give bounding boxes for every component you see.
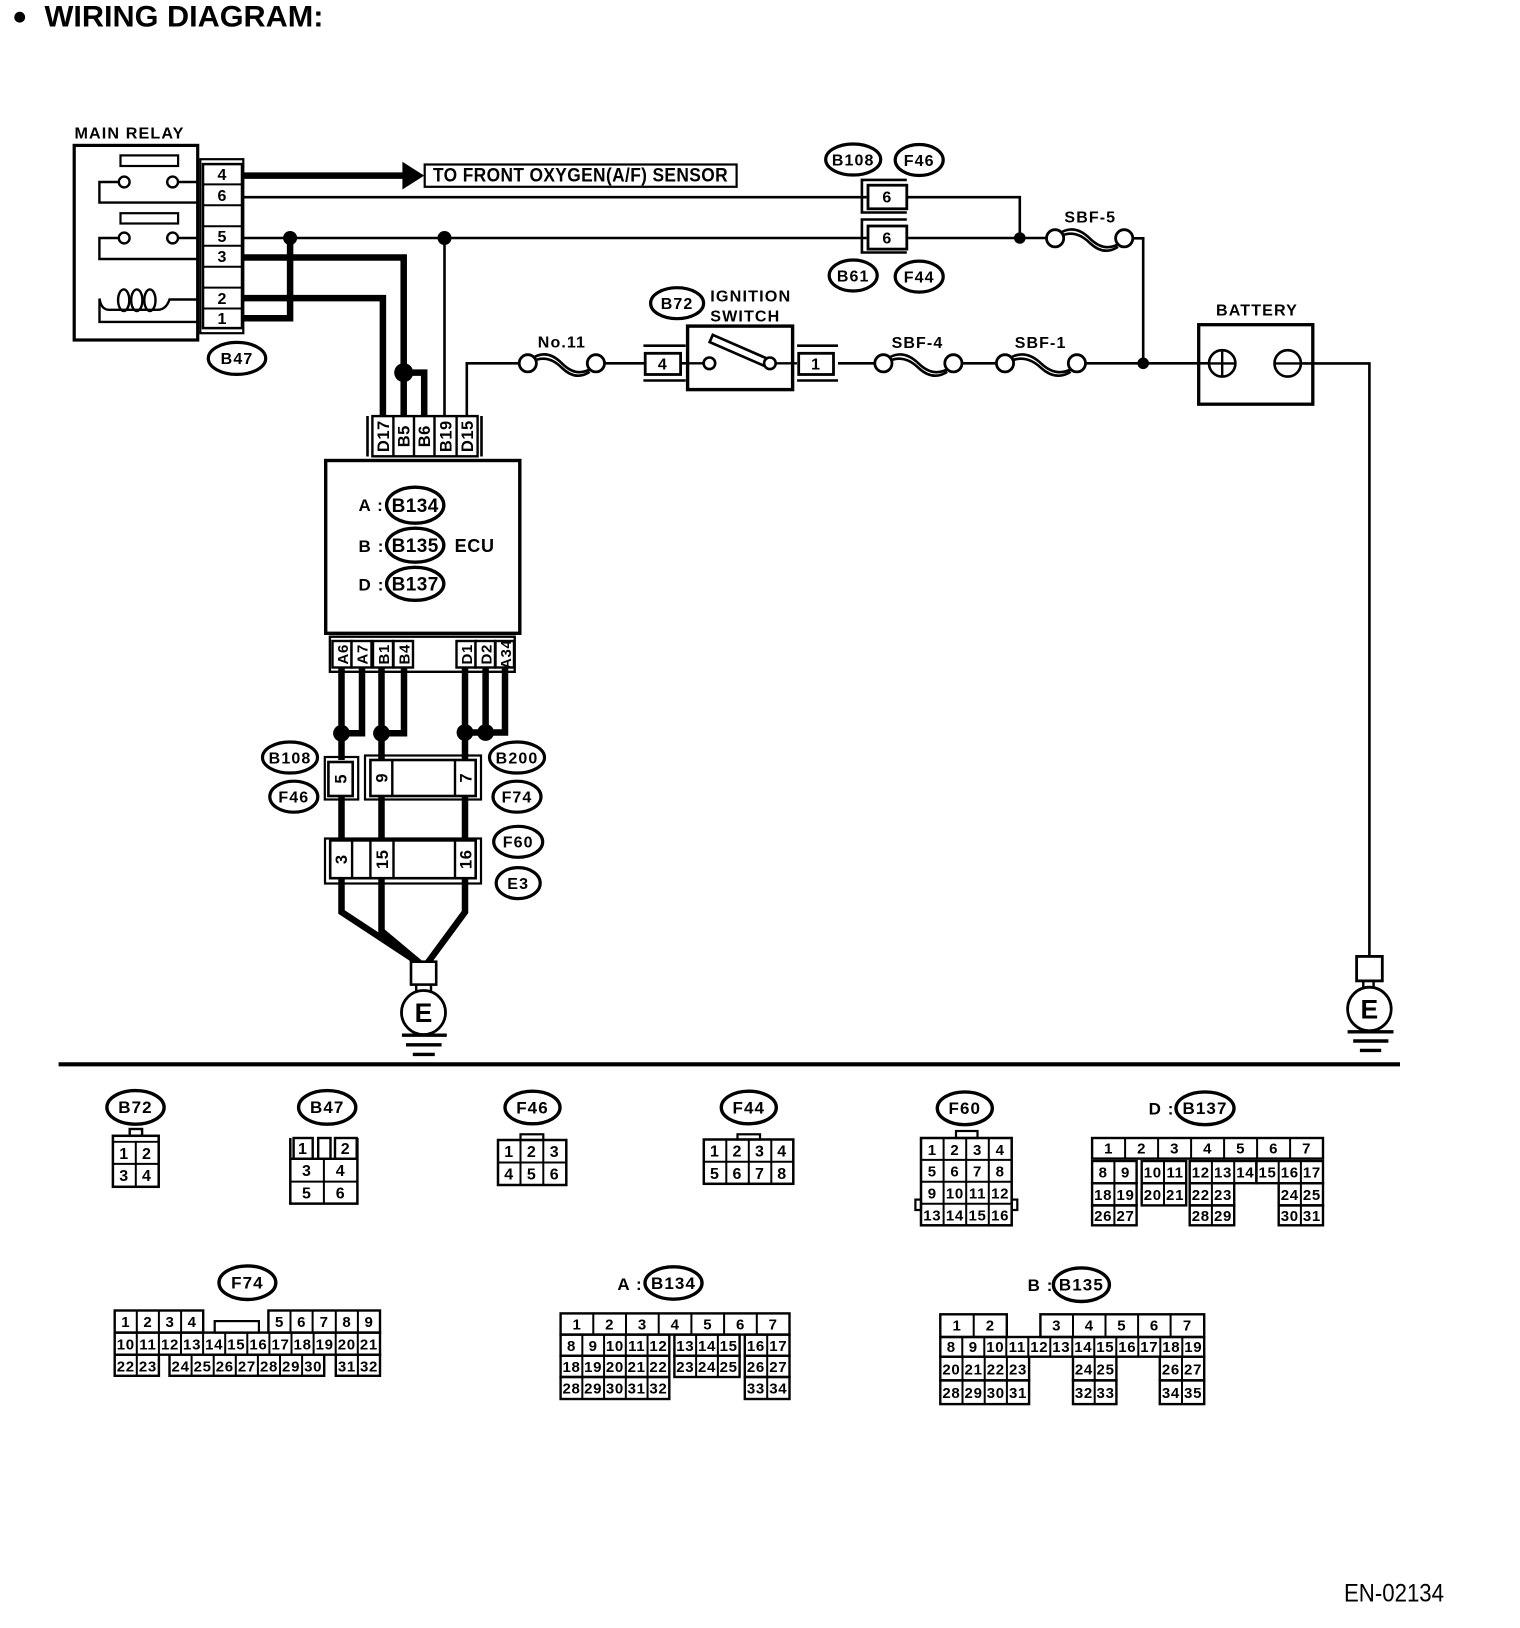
- pin 1 box of ignition switch: [797, 344, 838, 347]
- svg-text:26: 26: [1094, 1208, 1112, 1225]
- wire D2 (thick): [482, 668, 489, 733]
- svg-text:B5: B5: [396, 425, 414, 447]
- svg-text:F44: F44: [904, 269, 935, 286]
- junction dot A6/A7: [333, 725, 350, 742]
- wire pin 1 (thick): [242, 238, 290, 318]
- svg-text:B137: B137: [1182, 1099, 1227, 1118]
- svg-text:5: 5: [1117, 1317, 1126, 1334]
- svg-text:27: 27: [238, 1358, 256, 1375]
- junction dot: [1014, 232, 1026, 244]
- wire 5 to 3 (thick): [338, 796, 345, 842]
- svg-text:B :: B :: [1028, 1276, 1054, 1295]
- svg-text:29: 29: [965, 1385, 983, 1402]
- svg-text:26: 26: [747, 1359, 765, 1376]
- svg-text:8: 8: [567, 1338, 576, 1355]
- wire No.11 to pin4 box: [605, 362, 646, 365]
- svg-text:B6: B6: [416, 425, 434, 447]
- wire pin 5: [242, 237, 867, 240]
- svg-text:SBF-5: SBF-5: [1064, 210, 1116, 227]
- svg-text:8: 8: [996, 1164, 1005, 1181]
- svg-text:13: 13: [923, 1208, 941, 1225]
- svg-text:1: 1: [119, 1146, 129, 1163]
- svg-text:5: 5: [218, 229, 228, 246]
- svg-text:5: 5: [703, 1317, 712, 1334]
- oval B61: [829, 260, 877, 291]
- svg-text:21: 21: [360, 1336, 378, 1353]
- fuse SBF-5: [1061, 229, 1118, 247]
- ground E right circle: [1348, 987, 1392, 1031]
- wire A34 (thick): [465, 668, 505, 733]
- ground E right hatching: [1348, 1030, 1394, 1033]
- oval B135: [387, 528, 444, 562]
- svg-text:7: 7: [1302, 1141, 1311, 1158]
- svg-text:D2: D2: [478, 644, 495, 665]
- svg-text:3: 3: [119, 1168, 129, 1185]
- svg-text:6: 6: [733, 1166, 743, 1183]
- svg-text:MAIN RELAY: MAIN RELAY: [75, 126, 185, 143]
- svg-text:D1: D1: [459, 644, 476, 665]
- svg-text:11: 11: [139, 1336, 156, 1353]
- svg-text:17: 17: [769, 1338, 787, 1355]
- oval E3: [496, 868, 540, 899]
- svg-text:2: 2: [527, 1144, 537, 1161]
- svg-text:A :: A :: [617, 1275, 642, 1294]
- svg-text:1: 1: [1104, 1141, 1113, 1158]
- wire 6 top to pin5: [907, 197, 1020, 238]
- svg-text:6: 6: [1269, 1141, 1278, 1158]
- svg-text:11: 11: [1166, 1165, 1183, 1182]
- svg-text:D15: D15: [459, 420, 477, 452]
- connector 6 bottom bracket: [862, 220, 907, 253]
- svg-text:22: 22: [117, 1358, 135, 1375]
- svg-text:1: 1: [811, 357, 821, 374]
- connector 9-7 outer: [365, 756, 481, 800]
- svg-text:16: 16: [1281, 1165, 1299, 1182]
- svg-text:28: 28: [1192, 1208, 1210, 1225]
- svg-text:10: 10: [606, 1338, 624, 1355]
- svg-text:17: 17: [1303, 1165, 1321, 1182]
- svg-text:27: 27: [769, 1359, 787, 1376]
- svg-text:B108: B108: [832, 152, 875, 169]
- pinout B47: [299, 1091, 356, 1125]
- svg-text:5: 5: [710, 1166, 720, 1183]
- svg-text:3: 3: [333, 854, 351, 864]
- svg-text:3: 3: [302, 1163, 312, 1180]
- connector 6 top bracket: [862, 180, 907, 213]
- svg-text:3: 3: [165, 1314, 174, 1331]
- svg-text:B4: B4: [396, 644, 413, 665]
- svg-text:2: 2: [950, 1142, 959, 1159]
- svg-text:A6: A6: [335, 644, 352, 665]
- relay coil: [100, 299, 198, 310]
- svg-text:16: 16: [1118, 1339, 1136, 1356]
- svg-text:No.11: No.11: [538, 335, 586, 352]
- main relay box: [74, 145, 198, 340]
- svg-text:9: 9: [589, 1338, 598, 1355]
- svg-text:4: 4: [1085, 1317, 1094, 1334]
- svg-text:30: 30: [1281, 1208, 1299, 1225]
- svg-text:19: 19: [316, 1336, 334, 1353]
- svg-text:3: 3: [218, 249, 228, 266]
- svg-text:A34: A34: [498, 639, 515, 669]
- svg-text:19: 19: [1116, 1187, 1134, 1204]
- separator line: [59, 1062, 1400, 1066]
- svg-text:4: 4: [504, 1167, 514, 1184]
- pinout F44: [721, 1091, 776, 1124]
- wire 16 to ground (thick): [428, 878, 466, 963]
- ground E left box: [411, 962, 436, 985]
- svg-text:2: 2: [142, 1146, 152, 1163]
- ignition switch contacts: [704, 358, 716, 370]
- wire B19: [443, 238, 446, 419]
- svg-text:2: 2: [733, 1144, 743, 1161]
- title bullet: [14, 12, 25, 23]
- svg-text:F74: F74: [231, 1274, 264, 1293]
- connector strip B47 outer: [200, 159, 243, 333]
- svg-text:4: 4: [996, 1142, 1005, 1159]
- svg-text:2: 2: [986, 1317, 995, 1334]
- svg-text:28: 28: [260, 1358, 278, 1375]
- svg-text:31: 31: [628, 1381, 646, 1398]
- battery minus terminal: [1275, 350, 1301, 376]
- pinout F60: [937, 1092, 992, 1125]
- svg-text:11: 11: [1009, 1339, 1026, 1356]
- svg-text:27: 27: [1116, 1208, 1134, 1225]
- svg-text:E3: E3: [507, 876, 529, 893]
- svg-text:8: 8: [947, 1339, 956, 1356]
- ground E left circle: [402, 991, 446, 1035]
- svg-text:15: 15: [968, 1208, 986, 1225]
- connector 9-7 box: [370, 760, 475, 796]
- svg-text:18: 18: [294, 1336, 312, 1353]
- svg-text:32: 32: [360, 1358, 378, 1375]
- relay switch 1 contacts: [119, 177, 130, 188]
- svg-text:9: 9: [928, 1186, 937, 1203]
- fuse No.11: [534, 354, 590, 372]
- svg-text:34: 34: [1162, 1385, 1180, 1402]
- svg-text:11: 11: [628, 1338, 645, 1355]
- svg-text:4: 4: [188, 1314, 197, 1331]
- oval B134: [387, 487, 444, 523]
- svg-text:B135: B135: [1059, 1276, 1104, 1295]
- svg-text:5: 5: [1236, 1141, 1245, 1158]
- svg-text:6: 6: [336, 1185, 346, 1202]
- svg-text:14: 14: [205, 1336, 223, 1353]
- svg-text:28: 28: [942, 1385, 960, 1402]
- svg-text:B1: B1: [376, 644, 393, 665]
- svg-text:7: 7: [320, 1314, 329, 1331]
- svg-text:TO FRONT OXYGEN(A/F) SENSOR: TO FRONT OXYGEN(A/F) SENSOR: [433, 165, 728, 186]
- svg-text:F46: F46: [278, 790, 309, 807]
- svg-text:19: 19: [1184, 1339, 1202, 1356]
- svg-text:B61: B61: [837, 268, 870, 285]
- svg-text:4: 4: [658, 357, 668, 374]
- svg-text:B134: B134: [651, 1274, 696, 1293]
- svg-text:4: 4: [336, 1163, 346, 1180]
- svg-text:33: 33: [747, 1381, 765, 1398]
- svg-text:IGNITION: IGNITION: [710, 289, 791, 306]
- svg-text:24: 24: [1281, 1187, 1299, 1204]
- svg-text:9: 9: [364, 1314, 373, 1331]
- svg-text:34: 34: [769, 1381, 787, 1398]
- wire pin 6: [242, 196, 867, 199]
- ground E right box: [1357, 956, 1383, 981]
- wire B1 (thick): [378, 668, 385, 760]
- svg-text:8: 8: [342, 1314, 351, 1331]
- svg-text:2: 2: [341, 1141, 351, 1158]
- connector strip B47 cells: [203, 164, 242, 328]
- relay switch 1 wire: [99, 182, 197, 203]
- svg-text:16: 16: [457, 850, 475, 869]
- svg-text:D :: D :: [1149, 1099, 1175, 1118]
- pinout B72: [107, 1091, 164, 1125]
- wire 7 to 16 (thick): [462, 796, 469, 842]
- oval B72: [651, 288, 704, 319]
- svg-text:10: 10: [946, 1186, 964, 1203]
- svg-text:26: 26: [216, 1358, 234, 1375]
- svg-text:5: 5: [928, 1164, 937, 1181]
- svg-text:5: 5: [333, 774, 351, 784]
- svg-text:16: 16: [249, 1336, 267, 1353]
- ignition switch lever: [715, 340, 768, 363]
- svg-text:8: 8: [1099, 1165, 1108, 1182]
- svg-text:12: 12: [161, 1336, 179, 1353]
- svg-text:D17: D17: [375, 420, 393, 452]
- svg-text:WIRING DIAGRAM:: WIRING DIAGRAM:: [45, 0, 324, 33]
- svg-text:25: 25: [1097, 1361, 1115, 1378]
- svg-text:3: 3: [973, 1142, 982, 1159]
- svg-text:14: 14: [1236, 1165, 1254, 1182]
- ECU box: [326, 461, 520, 634]
- svg-text:3: 3: [1052, 1317, 1061, 1334]
- svg-text:6: 6: [1150, 1317, 1159, 1334]
- svg-text:20: 20: [1144, 1187, 1162, 1204]
- svg-text:18: 18: [1162, 1339, 1180, 1356]
- svg-text:15: 15: [227, 1336, 245, 1353]
- fuse SBF-1: [1011, 354, 1071, 372]
- svg-text:2: 2: [1137, 1141, 1146, 1158]
- wire 15 to ground (thick): [382, 878, 422, 964]
- svg-text:5: 5: [302, 1185, 312, 1202]
- svg-text:B :: B :: [359, 537, 385, 556]
- svg-text:E: E: [415, 998, 433, 1028]
- svg-text:20: 20: [606, 1359, 624, 1376]
- junction dot D2: [477, 724, 494, 741]
- label box TO FRONT OXYGEN SENSOR: [425, 165, 737, 187]
- svg-text:20: 20: [338, 1336, 356, 1353]
- wire D1 (thick): [462, 668, 469, 760]
- svg-text:35: 35: [1184, 1385, 1202, 1402]
- svg-text:14: 14: [946, 1208, 964, 1225]
- svg-text:7: 7: [755, 1166, 765, 1183]
- svg-text:1: 1: [928, 1142, 937, 1159]
- relay switch 2 contacts: [119, 233, 130, 244]
- svg-text:A7: A7: [355, 644, 372, 665]
- svg-text:B47: B47: [310, 1098, 345, 1117]
- battery plus terminal: [1209, 350, 1235, 376]
- svg-text:24: 24: [1075, 1361, 1093, 1378]
- svg-text:22: 22: [987, 1361, 1005, 1378]
- svg-text:16: 16: [747, 1338, 765, 1355]
- junction dot pin5/pin1: [283, 231, 297, 245]
- svg-text:24: 24: [698, 1359, 716, 1376]
- svg-text:16: 16: [991, 1208, 1009, 1225]
- svg-text:22: 22: [649, 1359, 667, 1376]
- relay contact bar 1: [121, 155, 179, 166]
- wire branch to B6 (thick): [404, 373, 425, 419]
- wire SBF-4 to SBF-1: [962, 362, 997, 365]
- svg-text:6: 6: [550, 1167, 560, 1184]
- svg-text:25: 25: [1303, 1187, 1321, 1204]
- svg-text:7: 7: [457, 773, 475, 783]
- connector 3-15-16 box: [330, 840, 476, 878]
- svg-text:17: 17: [1140, 1339, 1158, 1356]
- svg-text:7: 7: [973, 1164, 982, 1181]
- svg-text:15: 15: [1258, 1165, 1276, 1182]
- relay switch 2 wire: [99, 238, 197, 259]
- svg-text:21: 21: [628, 1359, 646, 1376]
- svg-text:32: 32: [649, 1381, 667, 1398]
- wire A7 (thick): [342, 668, 363, 733]
- svg-text:F46: F46: [904, 153, 935, 170]
- svg-text:6: 6: [297, 1314, 306, 1331]
- arrowhead: [402, 162, 424, 190]
- oval F74: [493, 781, 541, 812]
- svg-text:3: 3: [638, 1317, 647, 1334]
- svg-text:4: 4: [1203, 1141, 1212, 1158]
- svg-text:B19: B19: [438, 420, 456, 452]
- connector 6 bottom box: [868, 226, 907, 249]
- svg-text:F60: F60: [949, 1099, 982, 1118]
- svg-text:15: 15: [374, 850, 392, 869]
- svg-text:6: 6: [218, 188, 228, 205]
- svg-text:2: 2: [143, 1314, 152, 1331]
- oval B200: [490, 742, 545, 773]
- connector 3-15-16 outer: [325, 839, 481, 884]
- svg-text:SWITCH: SWITCH: [710, 309, 780, 326]
- svg-text:EN-02134: EN-02134: [1344, 1579, 1444, 1607]
- oval F46: [895, 145, 943, 176]
- wire 3 to ground (thick): [342, 878, 420, 963]
- oval B108: [826, 144, 881, 175]
- svg-text:B134: B134: [392, 496, 439, 517]
- svg-text:18: 18: [562, 1359, 580, 1376]
- oval B137: [387, 567, 444, 600]
- oval B108 lower: [263, 742, 318, 773]
- svg-text:9: 9: [969, 1339, 978, 1356]
- svg-text:B108: B108: [269, 750, 312, 767]
- svg-text:4: 4: [218, 167, 228, 184]
- svg-text:13: 13: [183, 1336, 201, 1353]
- wire A6 (thick): [338, 668, 345, 760]
- svg-text:30: 30: [987, 1385, 1005, 1402]
- svg-text:30: 30: [606, 1381, 624, 1398]
- svg-text:ECU: ECU: [455, 536, 495, 556]
- svg-text:B72: B72: [661, 296, 694, 313]
- svg-text:6: 6: [882, 230, 892, 247]
- wire pin 2 to D17 (thick): [242, 298, 383, 419]
- svg-text:33: 33: [1097, 1385, 1115, 1402]
- svg-text:D :: D :: [359, 575, 385, 594]
- svg-text:10: 10: [1144, 1165, 1162, 1182]
- svg-text:1: 1: [298, 1141, 308, 1158]
- svg-text:25: 25: [194, 1358, 212, 1375]
- wire SBF-5 to junction: [1133, 238, 1143, 363]
- svg-text:2: 2: [218, 291, 228, 308]
- svg-text:8: 8: [777, 1166, 787, 1183]
- ignition switch box: [688, 326, 793, 390]
- svg-text:F46: F46: [516, 1098, 549, 1117]
- svg-text:15: 15: [720, 1338, 738, 1355]
- connector 5 outer: [325, 757, 358, 800]
- svg-text:7: 7: [1183, 1317, 1192, 1334]
- ECU top connector strip: [366, 416, 369, 457]
- svg-text:1: 1: [218, 311, 228, 328]
- svg-text:12: 12: [991, 1186, 1009, 1203]
- svg-text:31: 31: [1303, 1208, 1321, 1225]
- svg-text:BATTERY: BATTERY: [1216, 303, 1298, 320]
- battery box: [1199, 325, 1313, 405]
- svg-text:30: 30: [304, 1358, 322, 1375]
- svg-text:4: 4: [671, 1317, 680, 1334]
- svg-text:SBF-1: SBF-1: [1015, 335, 1067, 352]
- svg-text:B72: B72: [118, 1098, 153, 1117]
- svg-text:1: 1: [504, 1144, 514, 1161]
- svg-text:23: 23: [1214, 1187, 1232, 1204]
- svg-text:F60: F60: [503, 835, 534, 852]
- svg-text:13: 13: [676, 1338, 694, 1355]
- svg-text:E: E: [1361, 995, 1379, 1025]
- svg-text:9: 9: [1121, 1165, 1130, 1182]
- svg-text:A :: A :: [359, 496, 384, 515]
- svg-text:13: 13: [1052, 1339, 1070, 1356]
- svg-text:21: 21: [965, 1361, 983, 1378]
- svg-text:B137: B137: [392, 574, 439, 595]
- svg-text:1: 1: [572, 1317, 581, 1334]
- wire pin 3 to B5 (thick): [242, 258, 404, 420]
- svg-text:11: 11: [969, 1186, 986, 1203]
- svg-text:3: 3: [755, 1144, 765, 1161]
- svg-text:32: 32: [1075, 1385, 1093, 1402]
- svg-text:18: 18: [1094, 1187, 1112, 1204]
- svg-text:1: 1: [710, 1144, 720, 1161]
- svg-text:23: 23: [1009, 1361, 1027, 1378]
- svg-text:B135: B135: [392, 536, 439, 557]
- svg-text:20: 20: [942, 1361, 960, 1378]
- junction dot B1/B4: [373, 725, 390, 742]
- svg-text:4: 4: [142, 1168, 152, 1185]
- svg-text:4: 4: [777, 1144, 787, 1161]
- svg-text:23: 23: [676, 1359, 694, 1376]
- wire B4 (thick): [382, 668, 405, 733]
- oval F60: [494, 826, 543, 857]
- svg-text:24: 24: [172, 1358, 190, 1375]
- svg-text:F44: F44: [733, 1098, 766, 1117]
- fuse SBF-4: [890, 354, 948, 372]
- svg-text:7: 7: [769, 1317, 778, 1334]
- svg-text:F74: F74: [502, 790, 533, 807]
- pin 4 box of ignition switch: [643, 344, 685, 347]
- ECU bottom connector strip: [330, 637, 515, 672]
- svg-text:29: 29: [282, 1358, 300, 1375]
- pinout F74: [219, 1266, 276, 1300]
- svg-text:1: 1: [121, 1314, 130, 1331]
- svg-text:5: 5: [275, 1314, 284, 1331]
- svg-text:6: 6: [882, 190, 892, 207]
- svg-text:9: 9: [373, 773, 391, 783]
- oval F44: [895, 261, 943, 292]
- svg-text:14: 14: [1074, 1339, 1092, 1356]
